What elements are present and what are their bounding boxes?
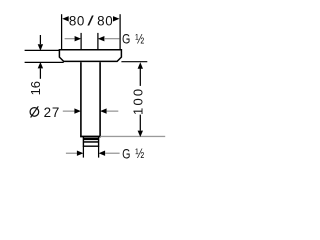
svg-text:80: 80 [69, 13, 85, 28]
svg-text:½: ½ [135, 31, 144, 46]
svg-text:½: ½ [135, 146, 144, 161]
svg-text:100: 100 [130, 87, 145, 115]
svg-text:80: 80 [97, 13, 113, 28]
svg-text:G: G [122, 31, 130, 46]
svg-text:27: 27 [44, 105, 61, 120]
svg-text:G: G [122, 146, 130, 161]
svg-text:16: 16 [28, 81, 43, 95]
svg-text:/: / [87, 13, 94, 28]
